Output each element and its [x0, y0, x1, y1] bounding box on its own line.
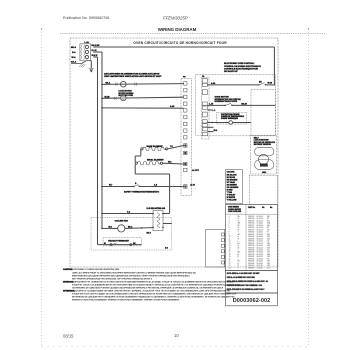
- svg-text:L-30: L-30: [209, 103, 213, 105]
- svg-text:PART No.: PART No.: [248, 206, 256, 209]
- wiring table box: [226, 205, 278, 271]
- relay out wire: [163, 223, 172, 225]
- svg-text:No.: No.: [270, 207, 273, 209]
- earth ground bars: [89, 67, 94, 69]
- vent thermostat wire row: [98, 244, 142, 246]
- svg-text:W-1B: W-1B: [105, 97, 111, 99]
- relay coil: [157, 213, 160, 228]
- svg-text:ATENCION-DESCONECTE EL SUMINIS: ATENCION-DESCONECTE EL SUMINISTRO ELECTR…: [63, 280, 234, 283]
- svg-text:INTERRUPTEUR PORTE: INTERRUPTEUR PORTE: [215, 101, 238, 103]
- svg-text:Y YELLOW: Y YELLOW: [227, 200, 237, 202]
- P6 pin 5: [184, 109, 187, 112]
- P2 pin 1: [221, 233, 224, 236]
- P6 pin 3: [184, 95, 187, 98]
- wire row A to pin: [101, 107, 103, 109]
- svg-text:BK: BK: [259, 81, 262, 83]
- svg-text:08/15: 08/15: [63, 334, 74, 339]
- svg-text:16T599553810-16-0216T: 16T599553810-16-0216T: [229, 250, 270, 252]
- wire blower row: [102, 83, 184, 86]
- svg-text:ANTI-SIPHONING BLOWER/MOTOR BL: ANTI-SIPHONING BLOWER/MOTOR BLOWER ANTI-…: [104, 72, 160, 75]
- P6 pin W2 broil: [184, 162, 187, 165]
- P6 pin T2 bake: [184, 144, 187, 147]
- wire row2 R: [93, 51, 102, 53]
- P9 pin 2: [202, 90, 207, 95]
- vent thermostat box: [103, 238, 141, 246]
- door latch switch S1: [258, 84, 259, 85]
- blower motor M1: [121, 81, 127, 87]
- latch cam upper: [255, 147, 274, 156]
- terminal 2: [85, 50, 88, 53]
- P6 pin 8: [184, 129, 187, 132]
- svg-text:FAN HALF THERMOSTAT: FAN HALF THERMOSTAT: [108, 239, 130, 242]
- P9 pin 7: [202, 124, 207, 127]
- P2 pin 2: [221, 239, 224, 242]
- svg-text:20L599554210-16-0220L: 20L599554210-16-0220L: [229, 258, 270, 260]
- svg-text:21BK599554308-15-0221B: 21BK599554308-15-0221B: [229, 261, 270, 263]
- svg-text:MDL: MDL: [262, 172, 267, 174]
- svg-text:BK-30: BK-30: [241, 103, 246, 105]
- svg-text:GA-A: GA-A: [71, 60, 77, 63]
- connector P9 outline: [202, 78, 210, 140]
- probe wire row: [207, 122, 229, 124]
- svg-text:A-30: A-30: [211, 82, 215, 85]
- latch motor M3: [259, 154, 269, 164]
- svg-text:COOLING FAN: COOLING FAN: [115, 220, 129, 223]
- stub W6: [207, 126, 213, 128]
- svg-text:OS ERRORES DE CABLEADO PUEDEN: OS ERRORES DE CABLEADO PUEDEN CAUSAR UNA…: [72, 287, 224, 290]
- fold mark vertical right: [308, 29, 310, 345]
- svg-text:LABEL ALL WIRES PRIOR TO DISCO: LABEL ALL WIRES PRIOR TO DISCONNECTION W…: [72, 271, 196, 274]
- vent thermostat terminals: [110, 244, 112, 246]
- svg-text:10: 10: [174, 333, 179, 338]
- terminal 3: [85, 55, 88, 58]
- latch cam lower: [255, 160, 274, 170]
- earth ground stem: [90, 61, 92, 69]
- ground wire GA row: [71, 61, 86, 64]
- P9 header rect: [202, 79, 207, 83]
- svg-text:W-6: W-6: [214, 130, 217, 132]
- svg-text:GA: GA: [262, 206, 265, 209]
- svg-text:B-6: B-6: [165, 248, 168, 250]
- svg-text:12L599553410-16-0212L: 12L599553410-16-0212L: [229, 241, 270, 243]
- svg-text:6R599552806-14-026R: 6R599552806-14-026R: [229, 227, 270, 229]
- svg-text:T-2: T-2: [170, 146, 173, 148]
- wire convection fan row: [102, 97, 184, 98]
- element left link: [140, 149, 142, 156]
- svg-text:BK-8: BK-8: [147, 232, 151, 234]
- svg-text:P9: P9: [202, 76, 204, 78]
- svg-text:USE No. 14 GA WIRE 600 V 105: USE No. 14 GA WIRE 600 V 105 C MIN.: [227, 276, 256, 279]
- part number box: [226, 293, 278, 306]
- P6 pin 4: [184, 102, 187, 105]
- P9 pin 6: [202, 120, 207, 123]
- terminal 1: [85, 45, 88, 48]
- svg-text:CONTROLE ELECTRONIQUE FOUR: CONTROLE ELECTRONIQUE FOUR: [224, 69, 258, 71]
- svg-text:MOTEUR VERROU: MOTEUR VERROU: [254, 144, 272, 146]
- P9 pin 8: [202, 128, 207, 131]
- svg-text:L2 OUT: L2 OUT: [192, 170, 200, 172]
- svg-text:ETIQUETER TOUS LES FILS AVANT: ETIQUETER TOUS LES FILS AVANT DE LES DEB…: [72, 293, 237, 296]
- wire cooling fan row: [101, 228, 103, 230]
- bake wire to pin: [168, 146, 184, 149]
- svg-text:VENT-LIMIT/MOTEUR VENTILATEUR: VENT-LIMIT/MOTEUR VENTILATEUR ANTI-SIPHO…: [104, 75, 162, 78]
- table column rule: [245, 205, 247, 271]
- P2 pin 6: [221, 261, 224, 264]
- temperature probe box: [217, 112, 247, 124]
- wire L1 drop right side: [273, 47, 275, 86]
- chassis ground: [79, 64, 85, 68]
- svg-text:W: W: [104, 243, 106, 245]
- svg-text:A-2: A-2: [127, 210, 130, 213]
- svg-text:NOTE: WIRE No. 5 GA USED ONLY: NOTE: WIRE No. 5 GA USED ONLY -BK UNIT: [227, 272, 260, 275]
- relay pins: [152, 213, 154, 215]
- colors legend box: [225, 170, 242, 204]
- junction blower row: [101, 84, 103, 86]
- EOC board outline: [196, 74, 276, 136]
- terminal block TB1: [80, 44, 91, 61]
- connector pair left: [115, 83, 118, 86]
- spare box right of colors: [249, 175, 277, 204]
- P6 pin L2 OUT: [184, 168, 187, 171]
- P6 pin 9: [184, 136, 187, 139]
- strain relief squiggle 2: [84, 45, 85, 61]
- element feed drop: [134, 164, 136, 174]
- svg-text:L-1A: L-1A: [85, 41, 90, 44]
- safety thermostat switch: [133, 186, 134, 187]
- svg-text:DLB RELAY/RELAIS: DLB RELAY/RELAIS: [147, 207, 166, 210]
- P6 pin 6: [184, 115, 187, 118]
- svg-text:13BK599553508-15-0213B: 13BK599553508-15-0213B: [229, 243, 270, 245]
- svg-text:15W599553708-15-0215W: 15W599553708-15-0215W: [229, 247, 271, 249]
- latch motor box MDL: [250, 135, 276, 174]
- P2 pin 4: [221, 250, 224, 253]
- svg-text:ETIQUETE TODOS LOS ALAMBRES AN: ETIQUETE TODOS LOS ALAMBRES ANTES DE DES…: [72, 283, 240, 286]
- relay K1 box: [153, 211, 163, 231]
- svg-text:Publication No. 5995562706: Publication No. 5995562706: [63, 16, 109, 20]
- svg-text:W-30: W-30: [268, 83, 272, 85]
- schematic frame: [70, 38, 278, 267]
- svg-text:ATENCION-: ATENCION-: [63, 280, 74, 283]
- P9 pin 1: [202, 83, 207, 86]
- svg-text:24T599554610-16-0224T: 24T599554610-16-0224T: [229, 267, 270, 269]
- svg-text:RIFY PROPER OPERATION AFTER SE: RIFY PROPER OPERATION AFTER SERVICING. R…: [72, 277, 153, 280]
- svg-text:5BK599552708-15-025BK: 5BK599552708-15-025BK: [229, 225, 271, 227]
- P6 pin 1: [184, 82, 187, 85]
- table notes box: [226, 271, 278, 293]
- fan assembly enclosure: [91, 218, 172, 251]
- wire A30 row: [207, 84, 259, 86]
- svg-text:22R599554406-14-0222R: 22R599554406-14-0222R: [229, 263, 271, 265]
- svg-text:ATTENTION-COUPER LE COURANT AV: ATTENTION-COUPER LE COURANT AVANT DE FAI…: [63, 290, 231, 293]
- bus vertical x102: [101, 52, 103, 228]
- inner latch switch box: [251, 90, 275, 136]
- P2 pin 3: [221, 244, 224, 247]
- svg-text:CONTROL DE HORNO ELECTRONICO/: CONTROL DE HORNO ELECTRONICO/: [224, 66, 261, 68]
- probe bulb: [229, 121, 233, 125]
- P9 pin 9: [202, 133, 207, 136]
- svg-text:11W599553308-15-0211W: 11W599553308-15-0211W: [229, 238, 271, 240]
- svg-text:B: B: [135, 183, 137, 185]
- svg-text:19W599554108-15-0219W: 19W599554108-15-0219W: [229, 256, 271, 258]
- svg-text:ERIFIER LE BON FONCTIONNEMENT.: ERIFIER LE BON FONCTIONNEMENT. ERIFIER L…: [72, 300, 180, 302]
- junction safety row: [101, 186, 103, 188]
- junction fan/relay: [141, 227, 143, 229]
- svg-text:A-15: A-15: [170, 105, 175, 108]
- earth ground triangle: [90, 70, 92, 72]
- svg-text:BK-A: BK-A: [71, 46, 77, 49]
- svg-text:A-8: A-8: [154, 184, 157, 187]
- wire to relay coil top: [101, 213, 103, 215]
- svg-text:D0003062-002: D0003062-002: [233, 298, 271, 304]
- wire L1 top row: [93, 46, 274, 48]
- svg-text:CAUTION-: CAUTION-: [63, 268, 73, 271]
- svg-text:L1 IN: L1 IN: [190, 185, 195, 187]
- P9 pin 5: [202, 112, 207, 117]
- svg-text:SONDE THERMIQUE: SONDE THERMIQUE: [221, 118, 239, 120]
- junction fan row: [101, 98, 103, 100]
- convection fan motor M2: [121, 95, 127, 101]
- svg-text:OVEN CIRCUIT//CIRCUITO DE HORN: OVEN CIRCUIT//CIRCUITO DE HORNO//CIRCUIT…: [133, 41, 227, 45]
- svg-text:FFEW3025P: FFEW3025P: [163, 15, 188, 20]
- P6 pin 2: [184, 89, 187, 92]
- svg-text:NOTE: UTILISER FIL DE CUIVRE N: NOTE: UTILISER FIL DE CUIVRE No 14 600 V…: [227, 288, 265, 291]
- P6 pin L1: [184, 185, 187, 188]
- earth ground junction from block: [86, 59, 88, 61]
- table header rule: [226, 213, 278, 215]
- svg-text:14R599553606-14-0214R: 14R599553606-14-0214R: [229, 245, 271, 247]
- svg-text:3W599552508-15-023W: 3W599552508-15-023W: [229, 220, 270, 222]
- connector pair: [114, 97, 117, 100]
- svg-text:DE VALVE OIT: DE VALVE OIT: [224, 70, 238, 73]
- svg-text:7W599552908-15-027W: 7W599552908-15-027W: [229, 229, 270, 231]
- svg-text:W-2: W-2: [168, 161, 171, 163]
- connector P6 outline: [181, 79, 192, 196]
- svg-text:L-1: L-1: [213, 110, 216, 112]
- svg-text:2R599552406-14-022R: 2R599552406-14-022R: [229, 218, 270, 220]
- svg-text:OVEN WIRING: OVEN WIRING: [228, 207, 240, 209]
- connector pair right: [134, 83, 137, 86]
- P9 pin 4: [202, 106, 207, 109]
- svg-text:WIRING DIAGRAM: WIRING DIAGRAM: [158, 27, 197, 32]
- svg-text:ATTENTION-: ATTENTION-: [63, 290, 75, 293]
- stub BR7: [207, 131, 213, 133]
- svg-text:COLORS: COLORS: [227, 172, 235, 174]
- broil element R2: [135, 162, 137, 164]
- svg-text:W-A: W-A: [72, 56, 77, 59]
- P6 pin mid: [184, 151, 187, 154]
- fold mark vertical left: [41, 29, 43, 346]
- wire row3 W: [93, 56, 97, 58]
- svg-text:BROIL ELEMENT: BROIL ELEMENT: [147, 159, 164, 161]
- svg-text:W-2: W-2: [109, 226, 112, 228]
- cooling fan motor M4: [118, 225, 125, 232]
- P6 pin 7: [184, 122, 187, 125]
- bake element R1: [141, 148, 143, 150]
- svg-text:R-A: R-A: [72, 51, 76, 54]
- P2 connector box: [206, 229, 225, 267]
- stub L-1: [207, 109, 212, 111]
- strain relief squiggle 1: [81, 45, 82, 61]
- svg-text:1BK599552308-15-021BK: 1BK599552308-15-021BK: [229, 216, 271, 218]
- svg-text:17BK599553908-15-0217B: 17BK599553908-15-0217B: [229, 252, 270, 254]
- P2 pin 5: [221, 255, 224, 258]
- svg-text:IRING ERRORS CAN CAUSE IMPROPE: IRING ERRORS CAN CAUSE IMPROPER AND DANG…: [72, 274, 191, 277]
- svg-text:BK-2: BK-2: [128, 226, 132, 228]
- svg-text:NE ERREUR DE CABLAGE PEUT ENTR: NE ERREUR DE CABLAGE PEUT ENTRAINER UN F…: [72, 296, 235, 299]
- svg-text:8T599553010-16-028T: 8T599553010-16-028T: [229, 232, 269, 234]
- fold mark horizontal bottom: [42, 346, 309, 348]
- latch cam follower: [260, 164, 268, 167]
- registration dots: [41, 28, 42, 29]
- svg-text:SAFETY THERMOSTAT/TERMOSTATO: SAFETY THERMOSTAT/TERMOSTATO: [124, 190, 160, 193]
- P9 pin 3: [202, 102, 207, 105]
- svg-text:9BK599553108-15-029BK: 9BK599553108-15-029BK: [229, 234, 271, 236]
- broil wire to pin: [163, 162, 184, 165]
- bus vertical x97.5: [97, 57, 99, 245]
- title underline dotted rule: [60, 33, 325, 35]
- svg-text:ELECTRONIC OVEN CONTROL/: ELECTRONIC OVEN CONTROL/: [224, 63, 255, 65]
- wire L30 row with switch: [207, 104, 225, 106]
